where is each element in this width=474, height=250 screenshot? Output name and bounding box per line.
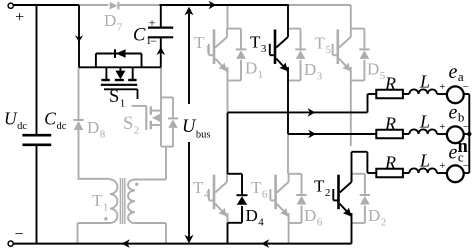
svg-text:L: L [419,151,430,171]
svg-text:+: + [439,121,445,133]
svg-text:L: L [419,72,430,92]
svg-text:−: − [14,226,23,243]
svg-text:R: R [384,153,396,173]
svg-text:−: − [150,34,157,48]
svg-text:+: + [439,160,445,172]
svg-text:+: + [149,16,156,30]
svg-text:n: n [458,137,469,157]
svg-text:R: R [384,74,396,94]
svg-text:R: R [384,114,396,134]
svg-text:+: + [439,81,445,93]
svg-text:L: L [419,112,430,132]
svg-text:+: + [15,9,24,26]
